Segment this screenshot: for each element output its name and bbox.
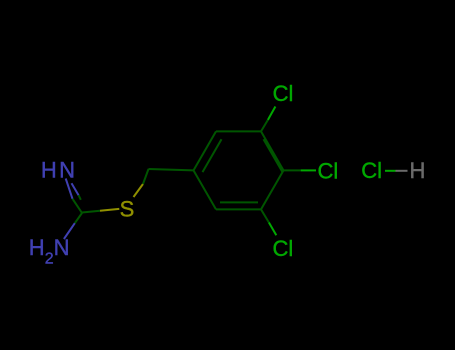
- svg-text:Cl: Cl: [273, 236, 294, 261]
- svg-text:Cl: Cl: [273, 81, 294, 106]
- svg-text:Cl: Cl: [318, 158, 339, 183]
- svg-text:S: S: [120, 197, 135, 222]
- svg-text:Cl: Cl: [361, 158, 382, 183]
- svg-text:H: H: [410, 158, 426, 183]
- svg-text:HN: HN: [41, 158, 77, 183]
